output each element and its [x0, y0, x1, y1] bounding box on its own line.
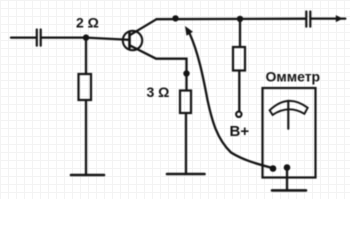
svg-text:2 Ω: 2 Ω: [76, 15, 99, 31]
svg-text:B+: B+: [230, 123, 250, 140]
svg-text:Омметр: Омметр: [266, 69, 321, 85]
svg-text:3 Ω: 3 Ω: [147, 84, 170, 100]
